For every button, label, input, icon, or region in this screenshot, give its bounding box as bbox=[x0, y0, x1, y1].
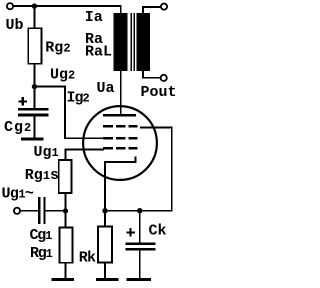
resistor Rk bbox=[98, 227, 112, 263]
svg-text:Ug1: Ug1 bbox=[34, 144, 59, 161]
wire Ck bottom plate to ground bbox=[139, 251, 141, 279]
svg-text:Pout: Pout bbox=[141, 84, 177, 101]
tube anode plate bbox=[103, 114, 136, 117]
capacitor Cg2 plates bbox=[18, 108, 48, 116]
wire Cg2 bottom to ground bbox=[34, 116, 36, 138]
wire Ig2 vertical drop bbox=[64, 86, 66, 140]
tube grid g1 dashes bbox=[103, 147, 138, 150]
svg-text:Rg1: Rg1 bbox=[30, 245, 53, 262]
tube cathode bbox=[104, 157, 137, 163]
wire Ck node down to Ck top plate bbox=[139, 211, 141, 243]
wire transformer secondary bottom stub bbox=[142, 71, 144, 79]
wire transformer secondary top stub bbox=[142, 6, 144, 13]
wire g3 lead to right rail bbox=[140, 126, 173, 128]
svg-text:Ug2: Ug2 bbox=[50, 67, 75, 84]
wire cathode drop bbox=[104, 162, 106, 211]
wire Ug1 corner down to Rg1s top bbox=[65, 149, 67, 161]
wire Ug1 lead into tube bbox=[65, 149, 105, 151]
ground below Cg2 bbox=[21, 138, 44, 141]
ground below Ck bbox=[127, 278, 151, 281]
svg-text:Ia: Ia bbox=[85, 9, 103, 26]
wire Rg1 bottom to ground bbox=[65, 263, 67, 279]
wire secondary top to terminal bbox=[142, 6, 161, 8]
svg-text:Ua: Ua bbox=[97, 80, 115, 97]
wire secondary bottom to terminal bbox=[142, 77, 160, 79]
svg-text:RaL: RaL bbox=[85, 44, 112, 61]
svg-text:Cg1: Cg1 bbox=[30, 227, 53, 244]
junction node cathode bbox=[102, 208, 107, 213]
capacitor Cg1 plates bbox=[38, 197, 46, 224]
ground below Rk bbox=[96, 278, 119, 281]
wire Cg1 to input node bbox=[46, 210, 67, 212]
terminal Ug1~ input bbox=[14, 208, 20, 214]
svg-text:Ub: Ub bbox=[6, 17, 24, 34]
wire top supply rail bbox=[13, 5, 122, 7]
wire Rg2 bottom to Ug2 node bbox=[34, 64, 36, 88]
resistor Rg1 bbox=[59, 228, 72, 263]
resistor Rg1s bbox=[59, 160, 72, 193]
wire right rail down to cathode rail bbox=[171, 126, 173, 210]
svg-text:Cg2: Cg2 bbox=[4, 119, 32, 136]
transformer core lines bbox=[131, 13, 135, 71]
tube envelope circle bbox=[83, 106, 157, 180]
wire cathode rail horizontal bbox=[104, 210, 173, 212]
wire Ug2 node down to Cg2 top bbox=[34, 87, 36, 109]
wire from rail down to Rg2 top bbox=[34, 5, 36, 29]
svg-text:Ug1~: Ug1~ bbox=[2, 185, 34, 202]
wire Ig2 horizontal from Ug2 node bbox=[34, 86, 66, 88]
transformer primary winding bar bbox=[114, 13, 128, 71]
wire anode lead from transformer to plate bbox=[120, 71, 122, 115]
tube grid g3 dashes bbox=[103, 125, 138, 128]
svg-text:Ck: Ck bbox=[149, 223, 167, 240]
transformer secondary winding bar bbox=[136, 13, 149, 71]
wire Rg1s bottom to input node bbox=[65, 193, 67, 211]
junction node Ug2 bbox=[32, 84, 37, 89]
capacitor Ck plus sign bbox=[126, 228, 134, 236]
terminal Pout top bbox=[161, 4, 167, 10]
capacitor Ck plates bbox=[126, 242, 156, 250]
resistor Rg2 bbox=[28, 28, 41, 63]
ground below Rg1 bbox=[52, 278, 74, 281]
terminal Pout bottom bbox=[161, 75, 167, 81]
wire Rk bottom to ground bbox=[104, 262, 106, 279]
capacitor Cg2 plus sign bbox=[19, 97, 27, 105]
terminal Ub bbox=[7, 3, 13, 9]
tube grid g2 dashes bbox=[103, 137, 138, 140]
junction dot at Ub rail bbox=[32, 3, 37, 8]
wire cathode node to Rk top bbox=[104, 211, 106, 228]
wire g2 lead into tube bbox=[64, 137, 104, 139]
wire stub from rail down to transformer primary top bbox=[120, 5, 122, 13]
svg-text:Rg1s: Rg1s bbox=[25, 167, 59, 184]
junction node Ck bbox=[137, 208, 142, 213]
wire input node down to Rg1 top bbox=[65, 211, 67, 228]
svg-text:Rg2: Rg2 bbox=[45, 40, 70, 57]
wire input terminal to Cg1 bbox=[20, 210, 38, 212]
junction node grid input bbox=[63, 208, 68, 213]
svg-text:Ig2: Ig2 bbox=[67, 90, 90, 107]
svg-text:Rk: Rk bbox=[79, 250, 96, 267]
